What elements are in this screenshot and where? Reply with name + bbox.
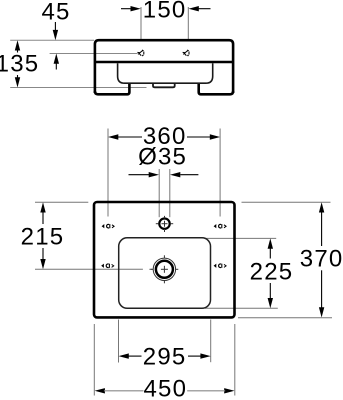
svg-text:Ø35: Ø35 — [138, 144, 187, 171]
svg-text:370: 370 — [300, 245, 343, 272]
svg-text:225: 225 — [250, 258, 294, 285]
svg-text:215: 215 — [21, 224, 65, 251]
svg-text:150: 150 — [143, 0, 187, 23]
svg-text:295: 295 — [143, 343, 187, 370]
svg-text:45: 45 — [41, 0, 70, 25]
svg-text:450: 450 — [143, 375, 187, 400]
svg-text:135: 135 — [0, 51, 39, 78]
